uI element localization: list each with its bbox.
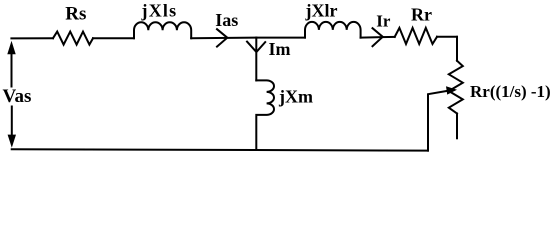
svg-text:jXls: jXls	[141, 0, 178, 20]
svg-text:Vas: Vas	[3, 86, 32, 107]
wire right vertical lead down	[456, 37, 458, 61]
resistor Rs	[53, 32, 93, 45]
wire top-left horizontal segment	[11, 37, 53, 39]
wire between Rs and jXls	[93, 37, 134, 39]
svg-text:jXm: jXm	[278, 87, 313, 107]
svg-text:Ir: Ir	[376, 11, 391, 30]
arrow Ias	[217, 29, 227, 46]
resistor Rr	[395, 28, 437, 44]
arrow Vas bottom (down)	[11, 107, 13, 136]
wire right inner branch up	[428, 91, 447, 151]
svg-text:Rr: Rr	[411, 5, 432, 25]
arrow Im	[247, 42, 265, 52]
svg-text:Ias: Ias	[215, 10, 238, 30]
node shunt branch vertical wire	[255, 38, 257, 81]
svg-text:Rs: Rs	[65, 4, 86, 25]
svg-text:Im: Im	[269, 39, 291, 59]
wire jXlr to Rr	[361, 36, 395, 39]
wire node to jXlr	[256, 37, 305, 39]
svg-text:Rr((1/s) -1): Rr((1/s) -1)	[470, 82, 550, 101]
wire resistor bottom lead (open end)	[456, 114, 458, 139]
resistor Rr((1/s)-1) vertical zigzag	[449, 61, 463, 114]
arrow Ir	[373, 28, 383, 46]
arrow into variable resistor (wiper)	[446, 86, 457, 94]
arrow Vas top (up)	[11, 53, 13, 87]
wire Rr to top-right corner	[437, 36, 457, 38]
wire jXls to node	[191, 37, 256, 40]
wire bottom rail	[12, 149, 428, 150]
svg-text:jXlr: jXlr	[305, 0, 338, 20]
inductor jXls	[134, 22, 191, 38]
inductor jXm	[256, 80, 274, 150]
inductor jXlr	[305, 22, 361, 38]
